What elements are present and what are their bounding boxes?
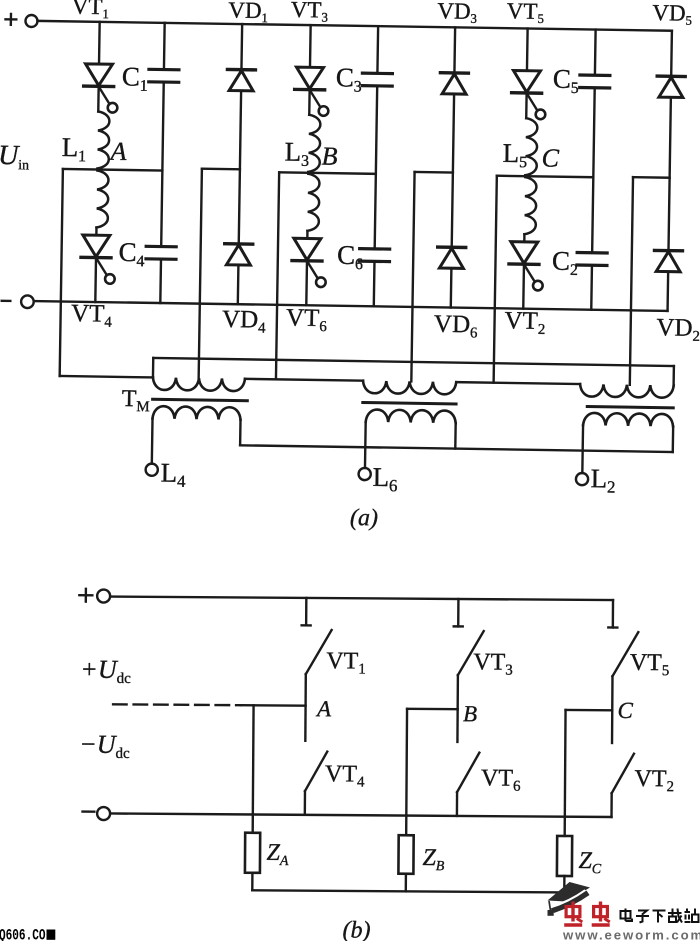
wire node A: [63, 169, 162, 171]
wire L1 to VT4: [95, 228, 98, 236]
thyristor VT2: [509, 242, 544, 291]
core bar 3: [587, 406, 673, 407]
wire P2-P3: [456, 382, 580, 384]
svg-text:B: B: [321, 142, 337, 171]
label L6: [372, 462, 398, 495]
minus terminal sign: [2, 300, 11, 303]
wire tap A to transformer: [199, 169, 202, 378]
svg-text:(b): (b): [342, 917, 370, 941]
label L4: [160, 458, 186, 491]
label C2: [552, 246, 579, 279]
switch VT2: [612, 754, 634, 794]
wire VD1 top: [240, 24, 243, 70]
svg-text:(a): (a): [350, 505, 378, 531]
wire C2 bottom: [590, 265, 593, 309]
label VT6: [286, 304, 328, 335]
plus terminal b: [97, 589, 110, 602]
plus terminal: [25, 15, 37, 27]
svg-text:C: C: [617, 698, 633, 723]
label VT6 b: [481, 765, 521, 794]
inductor L1 upper: [97, 112, 109, 169]
switch VT1: [306, 630, 332, 674]
wire bracket B: [415, 171, 453, 174]
wire VT3 anode: [309, 25, 312, 67]
wire VT5 to L5: [525, 93, 528, 118]
logo text dianzi xiazai zhan: [621, 909, 699, 923]
wire ZC bottom: [563, 876, 566, 892]
logo text chongchong: [564, 902, 582, 926]
wire phase A to transformer: [60, 169, 157, 377]
transformer secondary S1: [153, 406, 241, 420]
switch VT4: [305, 751, 327, 791]
caption (b): [342, 917, 370, 941]
label ZA: [266, 840, 289, 869]
caption (a): [350, 505, 378, 531]
label VD2: [656, 314, 700, 345]
svg-text:B: B: [463, 701, 477, 726]
wire VD3-VD6: [452, 94, 454, 247]
wire switch middle: [456, 675, 459, 742]
impedance ZC: [557, 836, 572, 876]
wire S1 to L4: [151, 418, 154, 463]
label L2: [590, 463, 616, 496]
capacitor C6: [359, 249, 389, 262]
terminal L4: [146, 464, 158, 476]
wire VT3 stub: [454, 599, 463, 626]
wire VD4 bottom: [237, 265, 240, 304]
terminal L2: [576, 473, 588, 485]
capacitor C3: [362, 73, 392, 86]
wire node C: [497, 176, 593, 177]
wire VT1 to L1: [97, 86, 100, 111]
diode VD6: [437, 247, 465, 268]
diode VD3: [440, 73, 468, 94]
switch VT3: [458, 631, 484, 675]
plus terminal sign: [5, 14, 16, 25]
wire VT5 stub: [608, 600, 617, 627]
wire bottom bus: [34, 301, 668, 311]
node B label b: [463, 701, 477, 726]
inductor L3 lower: [307, 174, 319, 231]
wire VT4 cathode: [94, 258, 97, 302]
label VT5: [507, 0, 545, 26]
wire phase C to transformer: [494, 176, 497, 383]
wire VT6 cathode: [305, 261, 308, 305]
core bar 1: [153, 399, 248, 400]
node B label: [321, 142, 337, 171]
label VT1 b: [326, 648, 366, 677]
wire to node A: [241, 704, 305, 707]
diode VD1: [227, 69, 255, 90]
wire VD5 top: [670, 31, 673, 77]
diode VD5: [657, 76, 685, 97]
svg-text:www.eeworm.com: www.eeworm.com: [562, 928, 700, 941]
svg-text:A: A: [315, 696, 332, 721]
label C5: [553, 64, 580, 97]
wire C to ZC: [563, 710, 566, 836]
wire bottom bus b: [110, 813, 611, 816]
node C label: [541, 143, 559, 172]
switch VT5: [612, 632, 638, 676]
wire VD1-VD4: [239, 91, 241, 244]
transformer primary P3: [580, 384, 674, 398]
label VT5 b: [630, 650, 670, 679]
wire P1-P2: [245, 379, 363, 381]
wire C1 top: [163, 23, 166, 70]
thyristor VT5: [511, 70, 546, 119]
wire VD2 bottom: [666, 272, 669, 311]
svg-text:C: C: [541, 143, 559, 172]
wire node B: [279, 172, 376, 174]
label L3: [284, 136, 309, 169]
wire C3-C6: [375, 86, 378, 249]
transformer secondary S2: [366, 409, 456, 423]
wire tap C to transformer: [630, 177, 633, 385]
transformer secondary S3: [583, 413, 673, 427]
wire S2 to L6: [364, 422, 367, 468]
label +Udc: [80, 655, 131, 687]
thyristor VT1: [83, 64, 118, 113]
wire S3 to L2: [581, 425, 584, 473]
wire tap B to transformer: [411, 172, 414, 381]
wire C4 bottom: [159, 259, 162, 303]
wire S1 right end: [239, 420, 242, 445]
capacitor C1: [149, 69, 179, 82]
label C6: [337, 240, 364, 273]
inductor L1 lower: [96, 171, 108, 228]
wire VD3 top: [453, 27, 456, 73]
minus terminal sign b: [83, 810, 95, 812]
label L5: [502, 138, 527, 171]
wire node C b: [566, 709, 613, 712]
impedance ZB: [398, 835, 413, 874]
wire L5 to VT2: [523, 234, 526, 242]
wire top bus: [37, 21, 671, 31]
wire transformer top loop: [153, 358, 674, 366]
label C4: [118, 237, 145, 270]
transformer primary P1: [153, 377, 245, 391]
plus terminal sign b: [79, 589, 92, 602]
dashed neutral line: [113, 703, 241, 706]
wire phase B to transformer: [276, 172, 279, 379]
svg-text:A: A: [108, 137, 126, 166]
diode VD2: [654, 250, 682, 271]
wire VT1 stub: [302, 598, 311, 625]
wire C6 bottom: [373, 261, 376, 306]
switch VT6: [457, 753, 479, 793]
label ZC: [578, 848, 602, 877]
label VT1: [72, 0, 110, 21]
label VD3: [437, 0, 477, 26]
minus terminal: [21, 295, 34, 308]
inductor L5 lower: [524, 177, 536, 234]
label -Udc: [79, 730, 130, 762]
wire VT6 bottom: [456, 792, 459, 816]
wire loop left bend: [152, 358, 155, 377]
wire A to ZA: [251, 705, 254, 832]
label C1: [122, 61, 149, 94]
label C3: [336, 62, 363, 95]
minus terminal b: [97, 807, 110, 820]
wire B to ZB: [405, 709, 408, 835]
wire VT4 bottom: [304, 791, 307, 815]
label Uin: [0, 140, 29, 173]
label VT4 b: [325, 761, 365, 790]
label L1: [61, 132, 86, 165]
wire load common: [252, 890, 564, 892]
wire S2 right end: [454, 423, 457, 448]
node C label b: [617, 698, 633, 723]
transformer primary P2: [363, 381, 456, 395]
core bar 2: [363, 402, 456, 403]
impedance ZA: [245, 833, 260, 873]
wire bracket A: [202, 167, 240, 170]
wire loop right bend: [672, 366, 675, 385]
label VT4: [71, 300, 113, 331]
capacitor C5: [580, 75, 610, 88]
inductor L3 upper: [308, 115, 320, 172]
wire VT1 anode: [98, 22, 101, 64]
wire VD5-VD2: [668, 97, 670, 250]
terminal L6: [358, 468, 370, 480]
wire L3 to VT6: [306, 231, 309, 239]
inductor L5 upper: [525, 118, 537, 175]
label TM: [122, 386, 150, 415]
wire VT5 anode: [526, 28, 529, 70]
wire top bus b: [110, 597, 613, 601]
label VD5: [652, 0, 692, 28]
thyristor VT4: [81, 235, 116, 284]
wire C1-C4: [161, 82, 164, 246]
wire S3 right end: [672, 427, 675, 452]
label VT2: [504, 307, 545, 338]
wire VT2 bottom: [610, 793, 613, 817]
label VD6: [434, 311, 479, 342]
label VD4: [222, 306, 267, 337]
wire VD6 bottom: [450, 268, 453, 307]
wire C5 top: [594, 30, 597, 76]
capacitor C4: [146, 246, 176, 259]
wire switch middle: [611, 676, 614, 743]
wire VT2 cathode: [522, 264, 525, 308]
wire VT3 to L3: [308, 90, 311, 115]
label ZB: [422, 845, 445, 874]
wire C3 top: [376, 26, 379, 73]
label VT3: [291, 0, 329, 25]
wire secondary common: [240, 445, 673, 452]
label VT2 b: [634, 766, 674, 795]
node A label: [108, 137, 126, 166]
logo graduation cap: [548, 882, 591, 916]
label VT3 b: [473, 649, 513, 678]
wire switch middle: [304, 674, 307, 741]
wire ZA bottom: [251, 873, 254, 890]
thyristor VT6: [292, 238, 327, 287]
wire ZB bottom: [405, 874, 408, 892]
diode VD4: [224, 244, 252, 265]
thyristor VT3: [294, 67, 329, 116]
wire node B b: [407, 708, 458, 711]
node A label b: [315, 696, 332, 721]
label VD1: [228, 0, 268, 25]
svg-text:Q606.CO: Q606.CO: [0, 927, 46, 941]
wire bracket C: [633, 176, 670, 179]
capacitor C2: [577, 252, 607, 265]
wire C5-C2: [592, 88, 595, 253]
